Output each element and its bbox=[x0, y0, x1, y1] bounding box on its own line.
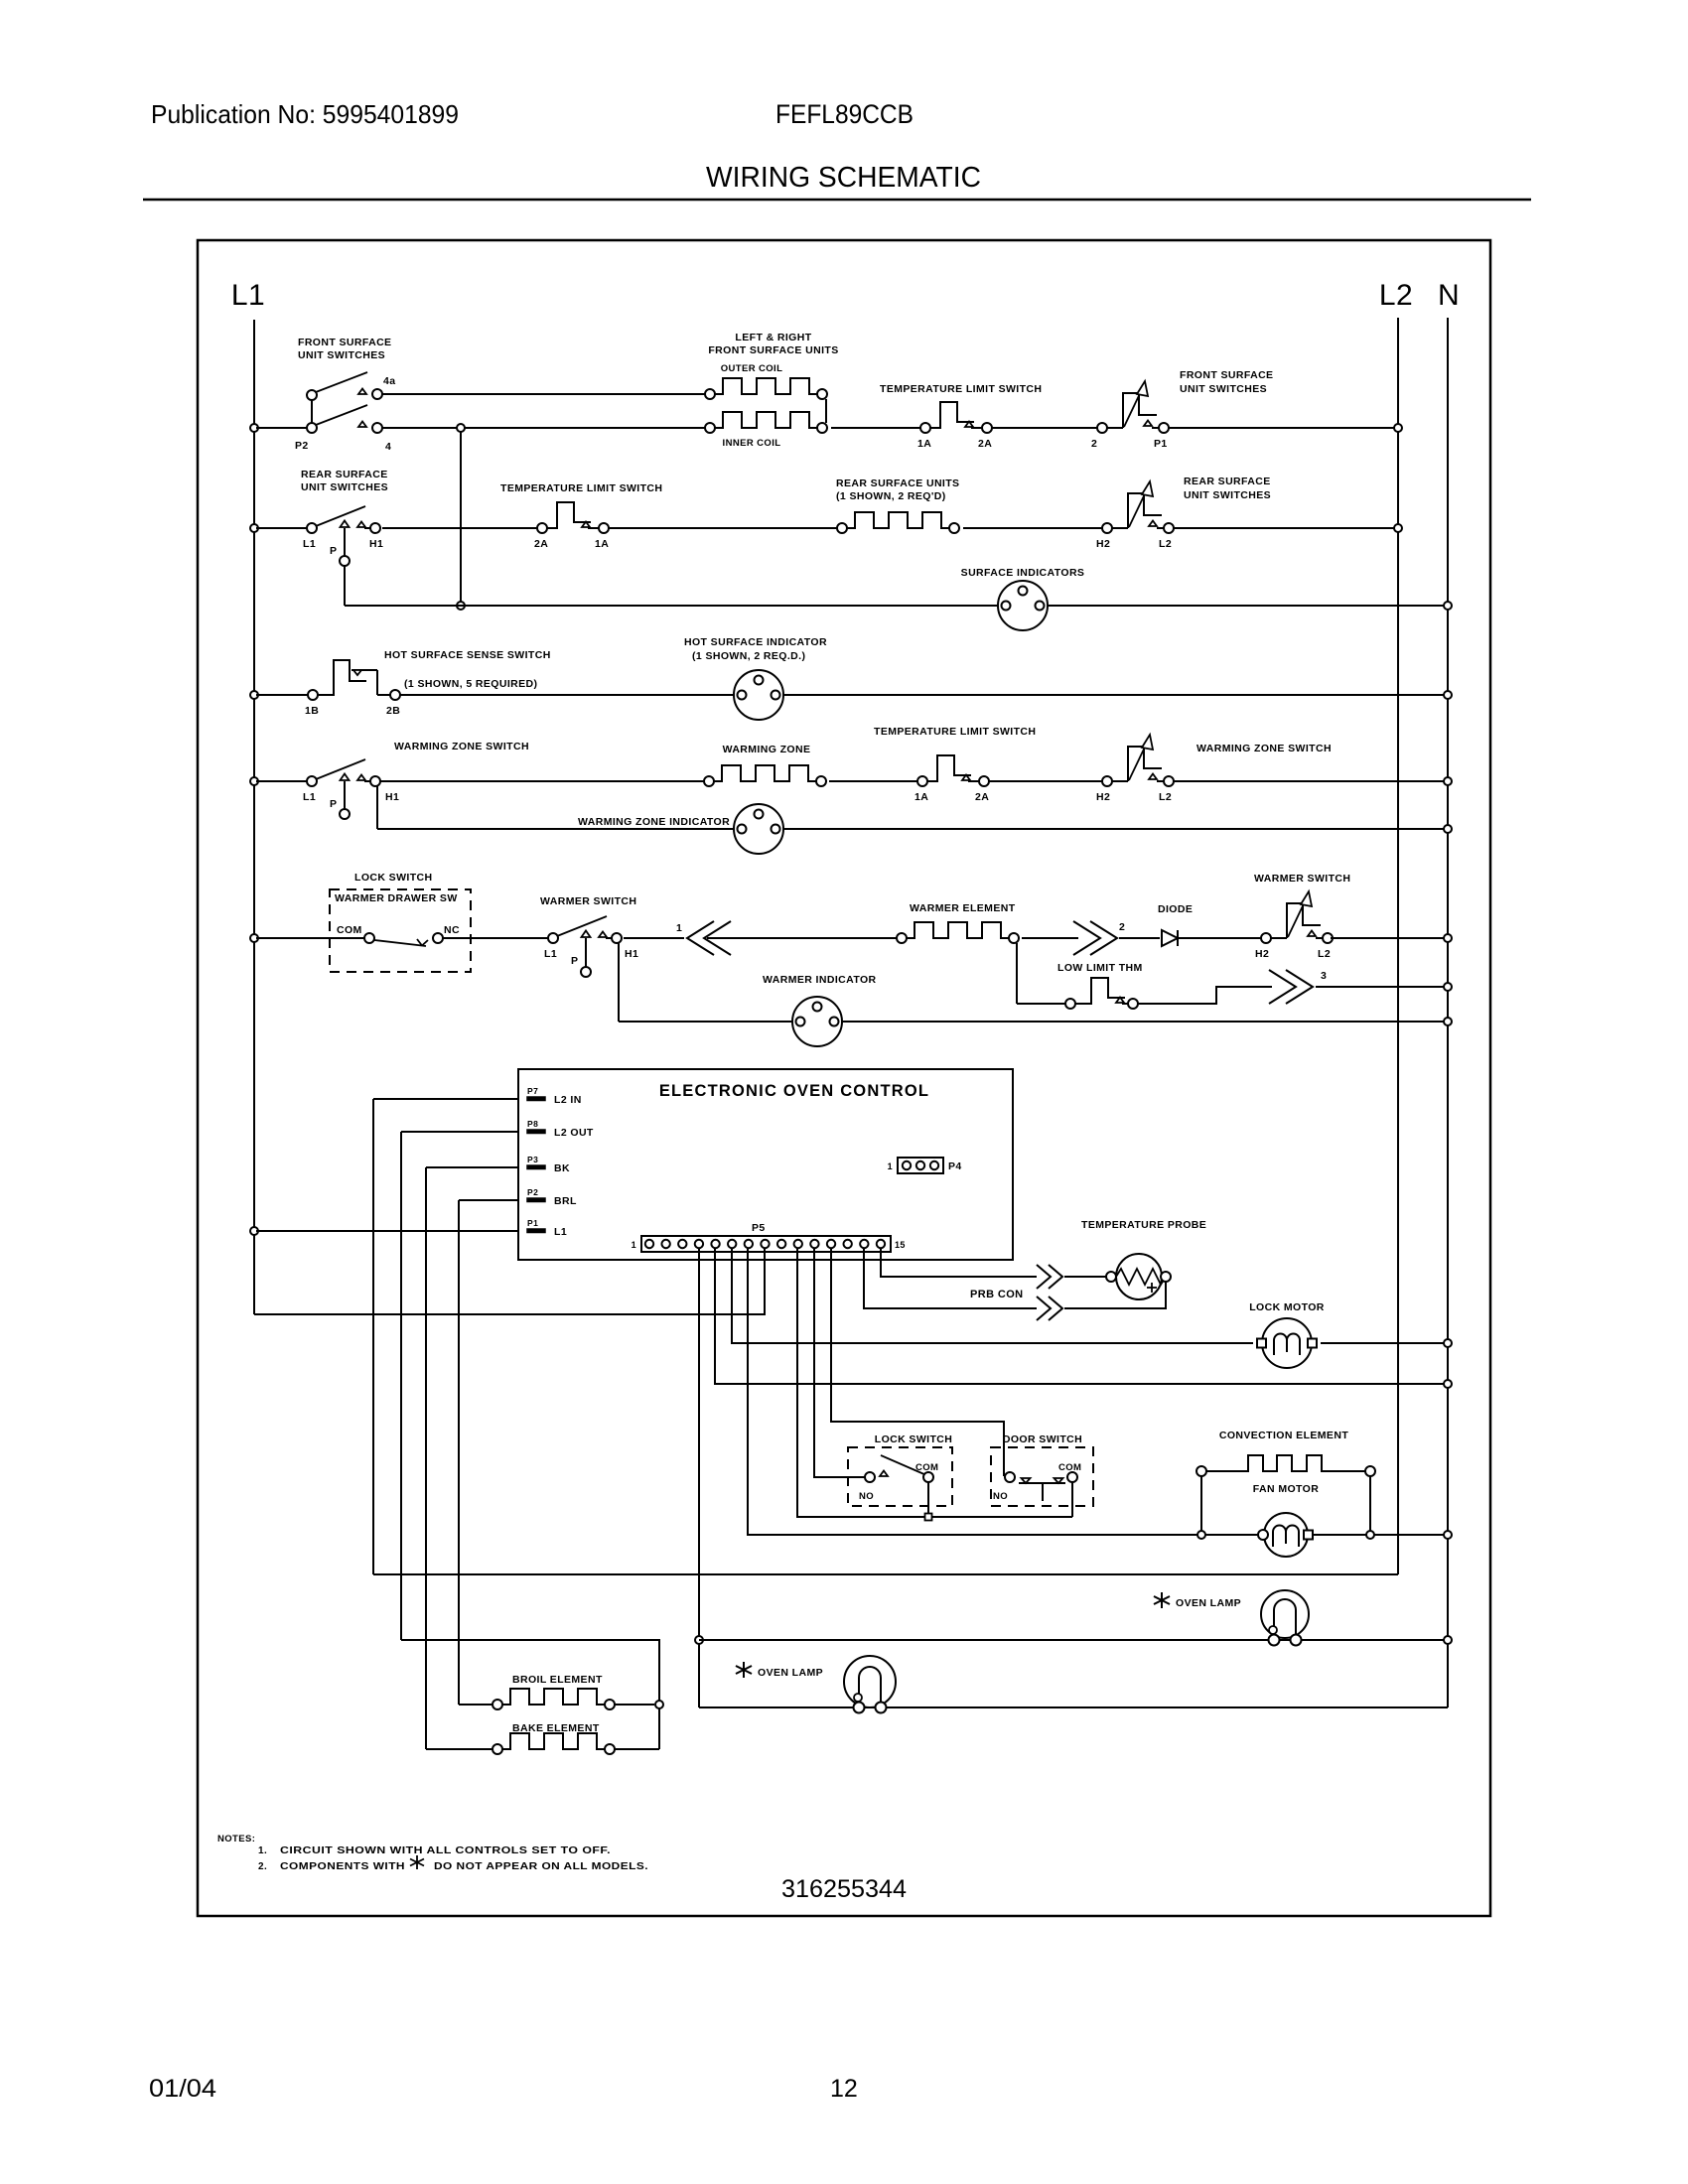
svg-text:L2 OUT: L2 OUT bbox=[554, 1127, 594, 1139]
wire P3 riser bbox=[425, 1167, 427, 1749]
wire warmer switch to N bbox=[1331, 934, 1452, 942]
svg-text:DO NOT APPEAR ON ALL MODELS.: DO NOT APPEAR ON ALL MODELS. bbox=[434, 1861, 648, 1872]
wire H1 to connector 1 bbox=[624, 937, 684, 939]
header model number FEFL89CCB bbox=[775, 99, 914, 129]
wire P drop to indicator row bbox=[344, 566, 346, 606]
label broil element bbox=[512, 1674, 603, 1686]
wire warmer element junction drop bbox=[1017, 943, 1065, 1004]
svg-text:2: 2 bbox=[1091, 438, 1097, 450]
door switch dashed box bbox=[991, 1447, 1093, 1506]
svg-text:WARMER SWITCH: WARMER SWITCH bbox=[540, 895, 636, 907]
svg-text:FEFL89CCB: FEFL89CCB bbox=[775, 99, 914, 129]
svg-text:FRONT SURFACE UNITS: FRONT SURFACE UNITS bbox=[708, 344, 838, 356]
wire 1A to rear units bbox=[609, 527, 837, 529]
pin P2 BRL bbox=[527, 1187, 577, 1207]
warmer indicator label bbox=[763, 974, 877, 986]
PRB connector row2 chevrons bbox=[1037, 1297, 1062, 1320]
rear surface unit switches label left bbox=[301, 469, 388, 493]
wire P5 pin4 drop bbox=[695, 1249, 703, 1707]
wire L1 to rear switch bbox=[250, 524, 307, 532]
wire P2 riser bbox=[458, 1200, 460, 1705]
svg-text:BROIL ELEMENT: BROIL ELEMENT bbox=[512, 1674, 603, 1686]
svg-text:CONVECTION ELEMENT: CONVECTION ELEMENT bbox=[1219, 1430, 1348, 1441]
svg-text:P3: P3 bbox=[527, 1155, 538, 1164]
svg-text:L1: L1 bbox=[303, 538, 316, 550]
svg-text:L2: L2 bbox=[1379, 279, 1413, 312]
svg-text:UNIT SWITCHES: UNIT SWITCHES bbox=[301, 481, 388, 493]
front surface unit switches label left bbox=[298, 337, 391, 361]
svg-text:L2: L2 bbox=[1159, 791, 1172, 803]
part number 316255344 bbox=[781, 1875, 907, 1903]
label outer coil bbox=[721, 363, 783, 374]
svg-text:L1: L1 bbox=[303, 791, 316, 803]
pin P7 L2 IN bbox=[527, 1086, 582, 1106]
indicator warmer lamp bbox=[792, 997, 842, 1046]
header rule bbox=[143, 199, 1531, 202]
resistor warming zone bbox=[704, 765, 826, 786]
svg-text:H1: H1 bbox=[369, 538, 383, 550]
svg-text:P2: P2 bbox=[527, 1187, 538, 1197]
note 1 bbox=[258, 1845, 611, 1856]
wire oven lamp2 row bbox=[699, 1706, 1448, 1708]
svg-text:NO: NO bbox=[993, 1491, 1008, 1502]
label oven lamp 1 bbox=[1154, 1592, 1241, 1609]
wire chevron row2 to probe right bbox=[1064, 1282, 1166, 1308]
svg-text:1A: 1A bbox=[917, 438, 931, 450]
svg-text:LOW LIMIT THM: LOW LIMIT THM bbox=[1057, 962, 1143, 974]
svg-text:OUTER COIL: OUTER COIL bbox=[721, 363, 783, 374]
temperature limit switch warming 1A-2A bbox=[914, 755, 989, 803]
switch warmer drawer COM-NC bbox=[337, 924, 460, 946]
wire L1 to P2 bbox=[250, 424, 307, 432]
wire P2 BRL lead bbox=[459, 1199, 518, 1201]
svg-text:2A: 2A bbox=[975, 791, 989, 803]
wire H1 to TLS row3 bbox=[382, 527, 537, 529]
resistor broil element bbox=[492, 1689, 615, 1709]
svg-text:COMPONENTS WITH: COMPONENTS WITH bbox=[280, 1861, 405, 1872]
warmer element label bbox=[910, 902, 1016, 914]
header publication number bbox=[151, 99, 459, 129]
node L2 label bbox=[1379, 279, 1413, 312]
svg-text:LOCK MOTOR: LOCK MOTOR bbox=[1249, 1301, 1325, 1313]
wire warming TLS to H2 bbox=[989, 780, 1102, 782]
wire warming indicator row bbox=[377, 825, 1452, 833]
resistor convection element bbox=[1196, 1455, 1375, 1476]
wire hot surface indicator to N bbox=[783, 691, 1452, 699]
wire H1 to warming element bbox=[380, 780, 704, 782]
svg-text:TEMPERATURE LIMIT SWITCH: TEMPERATURE LIMIT SWITCH bbox=[500, 482, 662, 494]
label warming zone bbox=[723, 744, 811, 755]
svg-text:H2: H2 bbox=[1096, 791, 1110, 803]
svg-text:NC: NC bbox=[444, 924, 460, 936]
svg-text:3: 3 bbox=[1321, 970, 1327, 982]
label 4a bbox=[383, 375, 395, 387]
resistor bake element bbox=[492, 1733, 615, 1754]
label 4 bbox=[385, 441, 391, 453]
switch door NO-COM bbox=[993, 1462, 1081, 1502]
svg-text:DIODE: DIODE bbox=[1158, 903, 1193, 915]
temperature limit switch label row6 bbox=[874, 726, 1036, 738]
svg-text:OVEN LAMP: OVEN LAMP bbox=[758, 1667, 823, 1679]
svg-text:2A: 2A bbox=[534, 538, 548, 550]
svg-text:HOT SURFACE SENSE SWITCH: HOT SURFACE SENSE SWITCH bbox=[384, 649, 551, 661]
switch hot surface sense 1B-2B bbox=[305, 660, 400, 717]
wire warmer H1 drop bbox=[618, 943, 620, 1022]
wire convection right leg bbox=[1366, 1476, 1374, 1539]
warming zone switch label left bbox=[394, 741, 529, 752]
label temperature probe bbox=[1081, 1219, 1206, 1231]
svg-text:H1: H1 bbox=[625, 948, 638, 960]
svg-text:12: 12 bbox=[830, 2075, 858, 2103]
svg-text:L1: L1 bbox=[554, 1226, 567, 1238]
wire P1 to L2 bbox=[1169, 424, 1402, 432]
label diode bbox=[1158, 903, 1193, 915]
svg-text:H1: H1 bbox=[385, 791, 399, 803]
wire L1 to warming switch bbox=[250, 777, 307, 785]
warmer drawer switch dashed box bbox=[330, 889, 471, 972]
temperature probe bbox=[1106, 1254, 1171, 1299]
warming zone switch label right bbox=[1196, 743, 1332, 754]
svg-text:NO: NO bbox=[859, 1491, 874, 1502]
svg-text:WARMING ZONE SWITCH: WARMING ZONE SWITCH bbox=[1196, 743, 1332, 754]
connector 1 chevrons bbox=[687, 921, 731, 955]
svg-text:1: 1 bbox=[632, 1240, 636, 1250]
wire row2 to inner coil bbox=[382, 427, 705, 429]
svg-text:2: 2 bbox=[1119, 921, 1125, 933]
svg-text:FRONT SURFACE: FRONT SURFACE bbox=[298, 337, 391, 348]
svg-text:01/04: 01/04 bbox=[149, 2075, 216, 2103]
svg-text:L1: L1 bbox=[544, 948, 557, 960]
indicator surface lamp bbox=[998, 581, 1048, 630]
svg-text:COM: COM bbox=[337, 924, 362, 936]
schematic border frame bbox=[198, 240, 1490, 1916]
svg-text:P: P bbox=[571, 955, 578, 967]
node L1 label bbox=[231, 279, 265, 312]
wire L1 to 1B bbox=[250, 691, 308, 699]
resistor inner coil bbox=[705, 412, 827, 433]
wire oven lamp1 row bbox=[699, 1636, 1452, 1644]
svg-text:1A: 1A bbox=[914, 791, 928, 803]
svg-text:H2: H2 bbox=[1255, 948, 1269, 960]
wire warmer element to connector 2 bbox=[1022, 937, 1078, 939]
wire coil right link bbox=[825, 399, 827, 423]
connector P5 bbox=[632, 1222, 906, 1252]
wire P5 pin14 drop PRB row2 bbox=[864, 1249, 1037, 1308]
wire warming switch to N bbox=[1174, 777, 1452, 785]
warming zone indicator label bbox=[578, 816, 730, 828]
svg-text:UNIT SWITCHES: UNIT SWITCHES bbox=[1180, 383, 1267, 395]
wire surface indicator row bbox=[345, 602, 1452, 610]
wire connector 3 to N bbox=[1316, 983, 1452, 991]
label low limit THM bbox=[1057, 962, 1143, 974]
svg-text:P5: P5 bbox=[752, 1222, 766, 1234]
wire P7 riser bbox=[372, 1099, 374, 1574]
resistor outer coil bbox=[705, 378, 827, 399]
resistor rear surface unit bbox=[837, 512, 959, 533]
svg-text:BRL: BRL bbox=[554, 1195, 577, 1207]
wire P5 pin15 drop PRB row1 bbox=[881, 1249, 1037, 1277]
svg-text:LOCK SWITCH: LOCK SWITCH bbox=[875, 1433, 952, 1445]
node junction row2 bbox=[457, 424, 465, 432]
svg-text:L2: L2 bbox=[1159, 538, 1172, 550]
note 2 bbox=[258, 1855, 648, 1872]
svg-text:TEMPERATURE LIMIT SWITCH: TEMPERATURE LIMIT SWITCH bbox=[880, 383, 1042, 395]
wire diode to H2 bbox=[1178, 937, 1261, 939]
resistor warmer element bbox=[897, 922, 1019, 943]
label lock motor bbox=[1249, 1301, 1325, 1313]
wire H1 drop warming bbox=[376, 786, 378, 829]
svg-text:TEMPERATURE PROBE: TEMPERATURE PROBE bbox=[1081, 1219, 1206, 1231]
low limit thermostat bbox=[1065, 978, 1138, 1009]
svg-text:2.: 2. bbox=[258, 1861, 267, 1872]
wire P5 pin12 drop bbox=[831, 1249, 1004, 1476]
temperature limit switch label row3 bbox=[500, 482, 662, 494]
wire L1 bus bbox=[253, 320, 255, 1314]
label door switch bbox=[1003, 1433, 1082, 1445]
svg-text:H2: H2 bbox=[1096, 538, 1110, 550]
electronic oven control box bbox=[518, 1069, 1013, 1260]
switch warmer L1-P-H1 bbox=[544, 916, 638, 977]
motor lock bbox=[1257, 1318, 1317, 1368]
wire L2-IN row to L2 bus bbox=[373, 1573, 1398, 1575]
label bake element bbox=[512, 1722, 600, 1734]
wire P3 BK lead bbox=[426, 1166, 518, 1168]
wire lock COM drop bbox=[925, 1482, 932, 1521]
switch warmer right thermostat bbox=[1255, 891, 1333, 960]
pin P8 L2 OUT bbox=[527, 1119, 594, 1139]
svg-text:P4: P4 bbox=[948, 1160, 962, 1172]
svg-text:WARMER SWITCH: WARMER SWITCH bbox=[1254, 873, 1350, 885]
temperature limit switch 1A-2A bbox=[917, 402, 992, 450]
connector 3 chevrons bbox=[1269, 970, 1313, 1004]
rear surface units label bbox=[836, 478, 959, 502]
svg-text:WARMING ZONE SWITCH: WARMING ZONE SWITCH bbox=[394, 741, 529, 752]
label connector 2 bbox=[1119, 921, 1125, 933]
wire P8 riser bbox=[400, 1132, 402, 1640]
wire N bus bbox=[1447, 318, 1449, 1707]
hot surface indicator label bbox=[684, 636, 827, 662]
label warmer drawer sw bbox=[335, 892, 458, 904]
svg-text:DOOR SWITCH: DOOR SWITCH bbox=[1003, 1433, 1082, 1445]
footer date 01/04 bbox=[149, 2075, 216, 2103]
svg-text:FAN MOTOR: FAN MOTOR bbox=[1253, 1483, 1319, 1495]
svg-text:P8: P8 bbox=[527, 1119, 538, 1129]
wire connector 2 to diode bbox=[1119, 937, 1160, 939]
svg-text:WARMER DRAWER SW: WARMER DRAWER SW bbox=[335, 892, 458, 904]
svg-text:P1: P1 bbox=[1154, 438, 1168, 450]
svg-text:PRB CON: PRB CON bbox=[970, 1289, 1024, 1300]
svg-text:(1 SHOWN, 2 REQ.D.): (1 SHOWN, 2 REQ.D.) bbox=[692, 650, 805, 662]
temperature limit switch 2A-1A bbox=[534, 502, 609, 550]
wire connector 1 to warmer element bbox=[707, 937, 897, 939]
electronic oven control title bbox=[659, 1082, 929, 1100]
svg-text:WIRING SCHEMATIC: WIRING SCHEMATIC bbox=[706, 162, 981, 194]
svg-text:L1: L1 bbox=[231, 279, 265, 312]
switch front-surface right thermostat bbox=[1091, 381, 1169, 450]
indicator hot surface lamp bbox=[734, 670, 783, 720]
wire convection left leg bbox=[1197, 1476, 1205, 1539]
switch warming zone right thermostat bbox=[1096, 735, 1174, 803]
switch rear-surface right thermostat bbox=[1096, 481, 1174, 550]
svg-text:SURFACE INDICATORS: SURFACE INDICATORS bbox=[961, 567, 1085, 579]
motor fan bbox=[1258, 1513, 1313, 1557]
svg-text:OVEN LAMP: OVEN LAMP bbox=[1176, 1597, 1241, 1609]
pin P1 L1 bbox=[527, 1218, 567, 1238]
wire L2 bus bbox=[1397, 318, 1399, 1574]
label P2 bbox=[295, 440, 309, 452]
label oven lamp 2 bbox=[736, 1662, 823, 1679]
wire low limit to connector 3 bbox=[1138, 987, 1272, 1004]
label surface indicators bbox=[961, 567, 1085, 579]
wire lock motor to N bbox=[1321, 1339, 1452, 1347]
wire 2B to indicator bbox=[400, 694, 734, 696]
svg-text:INNER COIL: INNER COIL bbox=[723, 438, 781, 449]
svg-text:1B: 1B bbox=[305, 705, 319, 717]
switch front-surface upper pole bbox=[307, 372, 382, 400]
svg-text:316255344: 316255344 bbox=[781, 1875, 907, 1903]
warmer switch label right bbox=[1254, 873, 1350, 885]
svg-text:P2: P2 bbox=[295, 440, 309, 452]
footer page 12 bbox=[830, 2075, 858, 2103]
label fan motor bbox=[1253, 1483, 1319, 1495]
indicator warming zone lamp bbox=[734, 804, 783, 854]
svg-text:15: 15 bbox=[895, 1240, 906, 1250]
svg-text:Publication No: 5995401899: Publication No: 5995401899 bbox=[151, 99, 459, 129]
label connector 3 bbox=[1321, 970, 1327, 982]
svg-text:REAR SURFACE: REAR SURFACE bbox=[1184, 476, 1271, 487]
svg-text:L2 IN: L2 IN bbox=[554, 1094, 582, 1106]
hot surface sense switch label bbox=[384, 649, 551, 690]
diode D1 bbox=[1162, 930, 1178, 946]
wire bake feed bbox=[426, 1748, 492, 1750]
wire P5 pin5 drop bbox=[715, 1249, 1452, 1388]
connector P4 bbox=[888, 1158, 962, 1173]
switch warming zone L1-P-H1 bbox=[303, 759, 399, 819]
wire inner coil to TLS bbox=[831, 427, 920, 429]
switch front-surface lower pole P2 bbox=[307, 400, 382, 433]
front surface unit switches label right bbox=[1180, 369, 1273, 395]
switch lock NO-COM bbox=[859, 1455, 938, 1502]
label connector 1 bbox=[676, 922, 682, 934]
pin P3 BK bbox=[527, 1155, 570, 1174]
wire row1 to outer coil bbox=[382, 393, 705, 395]
svg-text:2B: 2B bbox=[386, 705, 400, 717]
wire L1 bus to P5 pin8 bbox=[254, 1249, 765, 1314]
wire 2A to switch 2 bbox=[992, 427, 1097, 429]
left & right front surface units label bbox=[708, 332, 838, 356]
lock switch label warmer drawer bbox=[354, 872, 432, 884]
svg-text:FRONT SURFACE: FRONT SURFACE bbox=[1180, 369, 1273, 381]
wire warmer indicator row bbox=[619, 1018, 1452, 1025]
wire chevron to probe bbox=[1064, 1276, 1106, 1278]
svg-text:1.: 1. bbox=[258, 1845, 267, 1856]
wire P5 pin7 drop fan row bbox=[748, 1249, 1452, 1539]
wire junction drop to indicator row bbox=[457, 432, 465, 610]
label lock switch bbox=[875, 1433, 952, 1445]
svg-text:P: P bbox=[330, 798, 337, 810]
label inner coil bbox=[723, 438, 781, 449]
label convection element bbox=[1219, 1430, 1348, 1441]
wire broil right bbox=[615, 1704, 654, 1706]
wire door COM drop bbox=[1071, 1482, 1073, 1517]
svg-text:2A: 2A bbox=[978, 438, 992, 450]
wire broil feed bbox=[459, 1704, 492, 1706]
svg-text:(1 SHOWN, 5 REQUIRED): (1 SHOWN, 5 REQUIRED) bbox=[404, 678, 537, 690]
label PRB CON bbox=[970, 1289, 1024, 1300]
wire rear units to H2 bbox=[963, 527, 1102, 529]
svg-text:4a: 4a bbox=[383, 375, 395, 387]
lock switch dashed box bbox=[848, 1447, 952, 1506]
svg-text:LEFT & RIGHT: LEFT & RIGHT bbox=[735, 332, 811, 343]
wire warming element to TLS bbox=[829, 780, 917, 782]
temperature limit switch label row2 bbox=[880, 383, 1042, 395]
svg-text:ELECTRONIC OVEN CONTROL: ELECTRONIC OVEN CONTROL bbox=[659, 1082, 929, 1100]
svg-text:REAR SURFACE UNITS: REAR SURFACE UNITS bbox=[836, 478, 959, 489]
wire P5 pin6 drop lock motor row bbox=[732, 1249, 1253, 1343]
wire P5 pin10 drop bbox=[797, 1249, 1072, 1517]
lamp oven 1 bbox=[1261, 1590, 1309, 1646]
svg-text:REAR SURFACE: REAR SURFACE bbox=[301, 469, 388, 480]
svg-text:COM: COM bbox=[1058, 1462, 1081, 1473]
wire bake right bbox=[615, 1748, 659, 1750]
wire P7 L2-IN lead bbox=[373, 1098, 518, 1100]
svg-text:4: 4 bbox=[385, 441, 391, 453]
wire P1 L1 lead bbox=[250, 1227, 518, 1235]
lamp oven 2 bbox=[844, 1656, 896, 1713]
svg-text:COM: COM bbox=[915, 1462, 938, 1473]
wire NC to warmer switch bbox=[443, 937, 548, 939]
svg-text:P: P bbox=[330, 545, 337, 557]
wire L1 to warmer drawer COM bbox=[250, 934, 364, 942]
PRB connector row1 chevrons bbox=[1037, 1265, 1062, 1289]
switch rear-surface L1-P-H1 bbox=[303, 506, 383, 566]
node N label bbox=[1438, 279, 1460, 312]
wire P5 pin11 drop bbox=[814, 1249, 865, 1477]
svg-text:1A: 1A bbox=[595, 538, 609, 550]
svg-text:BK: BK bbox=[554, 1162, 570, 1174]
notes heading bbox=[217, 1834, 255, 1844]
svg-text:P7: P7 bbox=[527, 1086, 538, 1096]
svg-text:N: N bbox=[1438, 279, 1460, 312]
svg-text:HOT SURFACE INDICATOR: HOT SURFACE INDICATOR bbox=[684, 636, 827, 648]
wire L2-OUT to broil box bbox=[401, 1640, 663, 1749]
svg-text:WARMER INDICATOR: WARMER INDICATOR bbox=[763, 974, 877, 986]
svg-text:TEMPERATURE LIMIT SWITCH: TEMPERATURE LIMIT SWITCH bbox=[874, 726, 1036, 738]
svg-text:UNIT SWITCHES: UNIT SWITCHES bbox=[298, 349, 385, 361]
connector 2 chevrons bbox=[1073, 921, 1117, 955]
wire L2 switch to L2 bus bbox=[1173, 524, 1402, 532]
svg-text:1: 1 bbox=[888, 1161, 893, 1171]
svg-text:P1: P1 bbox=[527, 1218, 538, 1228]
title WIRING SCHEMATIC bbox=[706, 162, 981, 194]
svg-text:WARMING ZONE: WARMING ZONE bbox=[723, 744, 811, 755]
svg-text:CIRCUIT SHOWN WITH ALL CONTROL: CIRCUIT SHOWN WITH ALL CONTROLS SET TO O… bbox=[280, 1845, 611, 1856]
svg-text:LOCK SWITCH: LOCK SWITCH bbox=[354, 872, 432, 884]
warmer switch label bbox=[540, 895, 636, 907]
svg-text:1: 1 bbox=[676, 922, 682, 934]
svg-text:NOTES:: NOTES: bbox=[217, 1834, 255, 1844]
svg-text:(1 SHOWN, 2 REQ'D): (1 SHOWN, 2 REQ'D) bbox=[836, 490, 946, 502]
svg-text:UNIT SWITCHES: UNIT SWITCHES bbox=[1184, 489, 1271, 501]
rear surface unit switches label right bbox=[1184, 476, 1271, 501]
svg-text:WARMER ELEMENT: WARMER ELEMENT bbox=[910, 902, 1016, 914]
wire P8 L2-OUT lead bbox=[401, 1131, 518, 1133]
svg-text:WARMING ZONE INDICATOR: WARMING ZONE INDICATOR bbox=[578, 816, 730, 828]
svg-text:L2: L2 bbox=[1318, 948, 1331, 960]
